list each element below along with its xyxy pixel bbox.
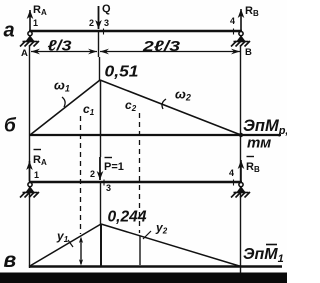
svg-text:0,51: 0,51 [105, 64, 139, 81]
node tick 3 on beam [103, 29, 105, 35]
node tick 4 on beam v [233, 180, 235, 186]
svg-text:Q: Q [102, 3, 111, 15]
load Q arrow [98, 6, 100, 29]
beam AB (row a) [29, 30, 242, 32]
Mp apex ordinate [100, 80, 102, 135]
svg-text:3: 3 [106, 183, 111, 193]
M1 triangle left side [29, 224, 101, 267]
reaction RB arrow [240, 9, 242, 30]
reaction RA bar arrow [29, 161, 31, 181]
centroid c2 dashed line [139, 113, 141, 233]
svg-text:2: 2 [90, 169, 95, 179]
omega2 leader tick [162, 99, 166, 109]
construction line at Q (x=98.5) [98, 31, 100, 57]
M1 apex ordinate [100, 224, 102, 267]
svg-text:B: B [245, 47, 252, 58]
svg-text:тм: тм [247, 135, 271, 152]
construction line at A (x=30) [29, 46, 31, 268]
svg-text:2: 2 [89, 18, 94, 28]
svg-text:2ℓ/3: 2ℓ/3 [142, 38, 181, 55]
Mp diagram baseline [29, 134, 281, 136]
support A (pin) [20, 32, 39, 47]
construction line mid (x=100) rows v to M1 [100, 135, 102, 157]
unit load P=1 arrow [99, 157, 101, 180]
centroid c1 dashed line [80, 116, 82, 234]
node tick 3 on beam v [103, 180, 105, 186]
svg-text:ℓ/3: ℓ/3 [48, 38, 73, 55]
svg-text:4: 4 [229, 168, 234, 178]
reaction RA arrow [29, 10, 31, 30]
omega1 leader tick [62, 97, 65, 107]
construction line at B (x=241) [240, 46, 242, 273]
svg-text:1: 1 [33, 18, 38, 28]
svg-text:0,244: 0,244 [108, 209, 147, 226]
support B (row v) [231, 183, 250, 198]
reaction RB bar arrow [240, 160, 242, 181]
svg-text:в: в [4, 249, 17, 272]
svg-text:3: 3 [104, 18, 109, 28]
node dot at B vertex [239, 133, 243, 137]
node tick 4 on beam [233, 29, 235, 35]
y2 ordinate [139, 236, 141, 265]
bottom black bar [0, 273, 287, 283]
svg-text:1: 1 [34, 170, 39, 180]
y2 leader tick [143, 231, 151, 239]
Mp triangle left side [30, 80, 100, 135]
svg-text:4: 4 [230, 16, 235, 26]
y1 leader tick [68, 240, 73, 247]
svg-text:A: A [21, 48, 28, 59]
svg-text:а: а [4, 20, 15, 42]
support A (row v) [20, 183, 39, 198]
M1 diagram baseline [29, 265, 282, 267]
support B (pin) [231, 32, 250, 47]
y1 ordinate arrow [80, 239, 82, 265]
svg-text:б: б [4, 116, 17, 137]
dimension line 2l/3 [100, 51, 240, 53]
svg-text:P=1: P=1 [104, 161, 124, 173]
Mp triangle right side [100, 80, 241, 135]
dimension line l/3 [31, 51, 97, 53]
beam row v [29, 181, 242, 183]
M1 triangle right side [101, 224, 241, 267]
